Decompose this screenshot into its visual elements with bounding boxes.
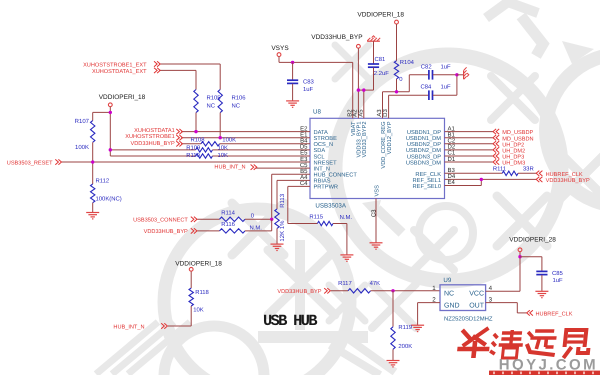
svg-text:1uF: 1uF [553,277,564,284]
svg-text:R119: R119 [398,324,412,331]
svg-text:VDD33HUB_BYP: VDD33HUB_BYP [131,141,175,147]
svg-text:B1: B1 [448,131,456,138]
svg-text:NZ2520SD12MHZ: NZ2520SD12MHZ [444,316,493,323]
svg-text:D2: D2 [448,144,456,151]
svg-text:R109: R109 [186,144,200,151]
svg-text:R110: R110 [186,152,200,159]
svg-text:NRESET: NRESET [314,160,338,166]
svg-text:USB HUB: USB HUB [263,312,318,330]
svg-text:XUHOSTDATA1_EXT: XUHOSTDATA1_EXT [92,69,147,75]
svg-text:HUB_INT_N: HUB_INT_N [214,164,245,170]
svg-text:VDDIOPERI_18: VDDIOPERI_18 [175,260,222,267]
svg-text:A5: A5 [357,109,364,117]
svg-text:R111: R111 [493,166,506,173]
svg-text:VDDIOPERI_18: VDDIOPERI_18 [357,12,404,19]
svg-text:R115: R115 [309,214,323,221]
svg-text:C5: C5 [300,162,308,169]
svg-text:4: 4 [489,285,493,292]
svg-text:1uF: 1uF [303,86,314,93]
svg-text:USBDN3_DM: USBDN3_DM [406,160,441,166]
svg-text:USBDN1_DM: USBDN1_DM [406,136,441,142]
svg-text:R106: R106 [232,94,247,101]
svg-text:HUBREF_CLK: HUBREF_CLK [546,172,583,178]
svg-text:PRTPWR: PRTPWR [314,185,339,191]
svg-text:VDD33HUB_BYP: VDD33HUB_BYP [144,229,188,235]
svg-text:REF_CLK: REF_CLK [415,172,441,178]
svg-text:C83: C83 [303,79,315,86]
svg-text:USB3503A: USB3503A [315,203,346,210]
svg-text:REF_SEL0: REF_SEL0 [413,184,441,190]
svg-text:B5: B5 [300,168,308,175]
svg-text:10K: 10K [218,144,229,151]
svg-text:R113: R113 [279,193,286,208]
svg-text:2: 2 [432,297,436,304]
svg-text:C82: C82 [421,63,432,70]
svg-text:R112: R112 [96,178,110,185]
svg-text:100K: 100K [222,136,236,143]
svg-text:E3: E3 [300,156,308,163]
svg-text:1uF: 1uF [441,63,452,70]
svg-text:C2: C2 [448,137,456,144]
svg-text:VCC: VCC [469,290,484,297]
svg-text:12K 1%: 12K 1% [279,220,286,242]
svg-text:2.2uF: 2.2uF [374,70,389,77]
svg-text:E2: E2 [300,125,308,132]
svg-text:HUBREF_CLK: HUBREF_CLK [536,311,573,317]
svg-text:NC: NC [444,290,454,297]
svg-text:REF_SEL1: REF_SEL1 [413,178,441,184]
svg-text:R105: R105 [207,94,222,101]
svg-text:E5: E5 [300,150,308,157]
svg-text:XUHOSTSTROBE1_EXT: XUHOSTSTROBE1_EXT [83,62,147,68]
svg-text:100K(NC): 100K(NC) [96,196,122,203]
svg-text:R117: R117 [338,280,352,287]
svg-text:VDD33HUB_BYP: VDD33HUB_BYP [277,289,321,295]
svg-text:B4: B4 [300,137,308,144]
svg-text:VDDIOPERI_28: VDDIOPERI_28 [509,237,556,244]
svg-text:GND: GND [444,303,460,310]
svg-text:R104: R104 [400,59,415,66]
svg-text:200K: 200K [398,343,412,350]
svg-text:VDD33HUB_BYP: VDD33HUB_BYP [311,34,362,41]
svg-text:C81: C81 [375,56,386,63]
svg-text:VDD_CORE_REG: VDD_CORE_REG [381,122,387,169]
svg-text:VDD12_BYP: VDD12_BYP [387,121,393,154]
svg-text:UH_DP2: UH_DP2 [502,142,524,148]
svg-text:R118: R118 [195,289,209,296]
svg-text:10K: 10K [218,152,229,159]
svg-text:NC: NC [207,102,216,109]
svg-text:E4: E4 [448,179,456,186]
svg-text:C84: C84 [421,84,433,91]
svg-text:R107: R107 [75,118,90,125]
svg-text:VDD33_BYP2: VDD33_BYP2 [362,122,368,158]
svg-text:VDDIOPERI_18: VDDIOPERI_18 [99,94,146,101]
svg-text:U8: U8 [313,109,321,116]
svg-text:D4: D4 [448,173,456,180]
svg-text:10K: 10K [193,307,204,314]
svg-text:B3: B3 [448,167,456,174]
svg-text:D5: D5 [300,144,308,151]
svg-text:3: 3 [489,297,493,304]
svg-text:N.M.: N.M. [340,214,353,221]
svg-text:1uF: 1uF [441,84,452,91]
svg-text:VSS: VSS [375,185,381,197]
svg-text:47K: 47K [370,280,381,287]
svg-text:R108: R108 [191,136,206,143]
svg-text:A4: A4 [300,174,308,181]
svg-text:USB3503_RESET: USB3503_RESET [7,160,53,166]
svg-text:VSYS: VSYS [271,45,289,52]
svg-text:A1: A1 [448,125,456,132]
svg-text:R116: R116 [221,221,235,228]
svg-text:33R: 33R [523,166,534,173]
svg-text:HUB_INT_N: HUB_INT_N [113,325,144,331]
svg-text:MD_USBDN: MD_USBDN [502,136,533,142]
svg-text:C4: C4 [300,180,308,187]
svg-text:XUHOSTSTROBE1: XUHOSTSTROBE1 [125,134,174,140]
svg-text:R114: R114 [221,209,235,216]
svg-text:E1: E1 [300,131,308,138]
svg-text:NC: NC [232,102,241,109]
svg-text:100K: 100K [75,144,89,151]
svg-text:N.M.: N.M. [250,225,263,232]
svg-text:A3: A3 [376,109,383,117]
svg-text:C1: C1 [448,150,456,157]
svg-text:U9: U9 [443,277,451,284]
svg-text:USB3503_CONNECT: USB3503_CONNECT [133,218,188,224]
svg-text:D3: D3 [382,108,389,116]
svg-text:C85: C85 [552,270,564,277]
svg-text:OUT: OUT [469,303,485,310]
svg-text:VDD33HUB_BYP: VDD33HUB_BYP [546,178,590,184]
svg-text:D1: D1 [448,156,456,163]
svg-text:C3: C3 [370,209,377,217]
svg-text:1: 1 [432,285,436,292]
svg-text:STROBE: STROBE [314,136,338,142]
